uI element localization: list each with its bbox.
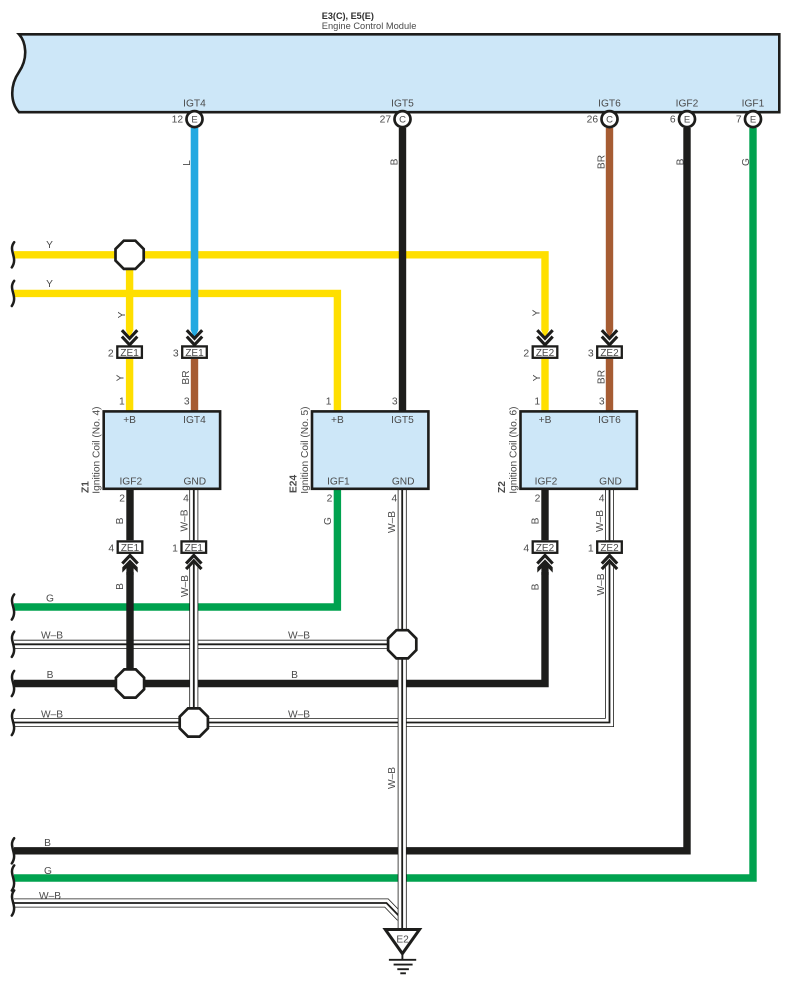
- svg-text:ZE2: ZE2: [536, 348, 555, 359]
- svg-text:IGF1: IGF1: [327, 477, 350, 488]
- svg-text:BR: BR: [597, 155, 608, 169]
- connector ZE2 pin 4 (chevron joint): [523, 541, 557, 554]
- svg-text:E: E: [684, 114, 690, 125]
- svg-text:IGT6: IGT6: [598, 98, 621, 109]
- svg-text:W–B: W–B: [595, 510, 606, 532]
- svg-text:+B: +B: [123, 415, 136, 426]
- svg-text:IGF2: IGF2: [119, 477, 142, 488]
- svg-text:IGF2: IGF2: [676, 98, 699, 109]
- svg-text:B: B: [291, 670, 298, 681]
- svg-text:12: 12: [172, 115, 184, 126]
- svg-text:W–B: W–B: [596, 573, 607, 595]
- svg-text:B: B: [115, 517, 126, 524]
- wire W-B Z1 GND pin 4 to ZE1 pin 1: [189, 488, 198, 540]
- svg-text:3: 3: [173, 348, 179, 359]
- junction W-B / E24 GND: [388, 630, 416, 658]
- wire Y yellow branch from junction to ZE1 pin 2: [126, 255, 133, 330]
- connector ZE2 pin 1 (chevron joint): [588, 541, 622, 554]
- svg-text:1: 1: [588, 543, 594, 554]
- svg-text:W–B: W–B: [180, 509, 191, 531]
- svg-text:W–B: W–B: [387, 767, 398, 789]
- svg-text:IGT4: IGT4: [183, 98, 206, 109]
- svg-text:W–B: W–B: [180, 575, 191, 597]
- ground E2: [385, 930, 419, 954]
- svg-text:1: 1: [534, 397, 540, 408]
- svg-text:ZE2: ZE2: [600, 348, 619, 359]
- svg-text:Ignition Coil (No. 6): Ignition Coil (No. 6): [508, 406, 519, 493]
- wire W-B bottom horizontal merging to E2 ground run: [14, 903, 401, 918]
- svg-text:IGF2: IGF2: [535, 477, 558, 488]
- svg-text:IGT6: IGT6: [598, 415, 621, 426]
- svg-text:E2: E2: [396, 934, 409, 945]
- wire W-B horizontal 2 (GND bus to Z2 via ZE2): [14, 564, 610, 723]
- svg-text:ZE1: ZE1: [121, 543, 140, 554]
- svg-text:2: 2: [108, 348, 114, 359]
- svg-text:W–B: W–B: [41, 709, 63, 720]
- wire B black from ECM IGT5 pin 27 to E24 IGT5: [399, 128, 406, 411]
- wire B Z2 IGF2 pin 2 to ZE2 pin 4: [541, 488, 548, 540]
- wire W-B Z2 GND pin 4 to ZE2 pin 1: [605, 488, 614, 540]
- wire-continuation break symbol G bottom: [12, 865, 14, 890]
- svg-text:Y: Y: [46, 279, 53, 290]
- svg-text:W–B: W–B: [39, 891, 61, 902]
- wire-continuation break symbol B mid: [12, 671, 14, 696]
- wire-continuation break symbol W-B1: [12, 632, 14, 657]
- ignition coil Z1 (No. 4): [80, 397, 220, 505]
- svg-text:Y: Y: [117, 311, 128, 318]
- svg-text:1: 1: [326, 397, 332, 408]
- svg-text:Y: Y: [532, 309, 543, 316]
- svg-text:ZE2: ZE2: [536, 543, 555, 554]
- svg-text:E24: E24: [289, 475, 300, 493]
- svg-text:ZE1: ZE1: [185, 348, 204, 359]
- svg-text:Y: Y: [116, 374, 127, 381]
- svg-text:GND: GND: [599, 477, 622, 488]
- wire BR brown from ECM IGT6 pin 26 to ZE2: [606, 128, 613, 330]
- ECM Engine Control Module box E3/E5: [12, 34, 779, 112]
- svg-text:Z2: Z2: [497, 481, 508, 493]
- connector ZE1 pin 1 (chevron joint): [172, 541, 206, 554]
- svg-text:ZE1: ZE1: [120, 348, 139, 359]
- svg-text:7: 7: [736, 115, 742, 126]
- svg-text:BR: BR: [181, 370, 192, 384]
- svg-text:1: 1: [172, 543, 178, 554]
- svg-text:E: E: [191, 114, 197, 125]
- svg-text:GND: GND: [183, 477, 206, 488]
- svg-text:IGT5: IGT5: [391, 415, 414, 426]
- svg-text:Y: Y: [46, 240, 53, 251]
- svg-text:B: B: [390, 158, 401, 165]
- svg-text:IGT5: IGT5: [391, 98, 414, 109]
- wire BR brown ZE2 to Z2 IGT6 pin 3: [606, 359, 613, 411]
- svg-text:Y: Y: [532, 374, 543, 381]
- wire B Z1 IGF2 pin 2 to ZE1 pin 4: [126, 488, 133, 540]
- wire BR brown ZE1 to Z1 IGT4 pin 3: [191, 359, 198, 411]
- svg-text:+B: +B: [331, 415, 344, 426]
- svg-text:B: B: [531, 517, 542, 524]
- svg-text:E3(C), E5(E): E3(C), E5(E): [322, 11, 374, 21]
- svg-text:2: 2: [327, 494, 333, 505]
- junction B bus / Z1 IGF2: [116, 669, 144, 697]
- svg-text:3: 3: [599, 397, 605, 408]
- svg-text:Engine Control Module: Engine Control Module: [322, 21, 417, 31]
- svg-text:3: 3: [392, 397, 398, 408]
- svg-text:2: 2: [535, 494, 541, 505]
- wire-continuation break symbol G: [12, 594, 14, 619]
- svg-text:G: G: [46, 594, 54, 605]
- wire G bottom horizontal to ECM IGF1 pin 7: [14, 128, 753, 878]
- svg-text:4: 4: [183, 494, 189, 505]
- connector ZE2 pin 3 (chevron joint): [602, 330, 617, 338]
- svg-text:6: 6: [670, 115, 676, 126]
- svg-text:IGF1: IGF1: [742, 98, 765, 109]
- svg-text:3: 3: [588, 348, 594, 359]
- wire-continuation break symbol B bottom: [12, 838, 14, 863]
- svg-text:BR: BR: [597, 370, 608, 384]
- svg-text:B: B: [531, 583, 542, 590]
- svg-text:+B: +B: [539, 415, 552, 426]
- svg-text:G: G: [323, 517, 334, 525]
- wire B mid horizontal (IGF2 bus to Z2): [14, 572, 545, 684]
- svg-text:IGT4: IGT4: [183, 415, 206, 426]
- svg-text:W–B: W–B: [387, 511, 398, 533]
- svg-text:B: B: [115, 583, 126, 590]
- svg-text:4: 4: [108, 543, 114, 554]
- connector ZE1 pin 4 (chevron joint): [108, 541, 142, 554]
- svg-text:4: 4: [391, 494, 397, 505]
- svg-text:Z1: Z1: [80, 481, 91, 493]
- wire-continuation break symbol Y1: [12, 242, 14, 267]
- wire B bottom horizontal to ECM IGF2 pin 6: [14, 128, 687, 851]
- wire Y yellow horizontal 1 (to ignition coil Z2 +B via ZE2): [14, 255, 545, 330]
- wire Y yellow horizontal 2 (to ignition coil E24 +B): [14, 293, 337, 411]
- svg-text:G: G: [741, 158, 752, 166]
- svg-text:B: B: [676, 158, 687, 165]
- connector ZE1 pin 3 (chevron joint): [187, 330, 202, 338]
- svg-text:3: 3: [184, 397, 190, 408]
- wire G green (to ignition coil E24 IGF1): [14, 488, 337, 607]
- connector ZE1 pin 2 (chevron joint): [122, 330, 137, 338]
- svg-text:C: C: [399, 114, 406, 125]
- svg-text:4: 4: [523, 543, 529, 554]
- svg-text:E: E: [750, 114, 756, 125]
- wire W-B horizontal 1 (to junction with E24 GND): [14, 640, 402, 649]
- wire-continuation break symbol Y2: [12, 281, 14, 306]
- svg-text:ZE2: ZE2: [600, 543, 619, 554]
- svg-text:ZE1: ZE1: [185, 543, 204, 554]
- junction on yellow wire: [116, 241, 144, 269]
- svg-text:W–B: W–B: [288, 630, 310, 641]
- wire L blue from ECM IGT4 pin 12 to ZE1: [191, 128, 199, 330]
- connector ZE2 pin 2 (chevron joint): [537, 330, 552, 338]
- junction W-B bus / Z1 GND: [180, 708, 208, 736]
- svg-text:26: 26: [587, 115, 599, 126]
- wire W-B ZE1 pin 1 down to junction: [189, 564, 198, 723]
- svg-text:27: 27: [380, 115, 392, 126]
- svg-text:C: C: [606, 114, 613, 125]
- svg-text:4: 4: [599, 494, 605, 505]
- wire Y yellow ZE1 to Z1 +B pin 1: [126, 359, 133, 411]
- svg-text:Ignition Coil (No. 4): Ignition Coil (No. 4): [92, 406, 103, 493]
- svg-text:1: 1: [119, 397, 125, 408]
- svg-text:W–B: W–B: [288, 709, 310, 720]
- svg-text:G: G: [44, 866, 52, 877]
- wire W-B E24 GND pin 4 down to ground E2: [398, 488, 407, 929]
- ignition coil E24 (No. 5): [289, 397, 429, 505]
- svg-text:GND: GND: [392, 477, 415, 488]
- svg-text:W–B: W–B: [41, 630, 63, 641]
- svg-text:2: 2: [119, 494, 125, 505]
- svg-text:B: B: [47, 670, 54, 681]
- ignition coil Z2 (No. 6): [497, 397, 637, 505]
- svg-text:Ignition Coil (No. 5): Ignition Coil (No. 5): [300, 406, 311, 493]
- svg-text:B: B: [44, 838, 51, 849]
- wire Y yellow ZE2 to Z2 +B pin 1: [541, 359, 548, 411]
- svg-text:2: 2: [523, 348, 529, 359]
- wire-continuation break symbol W-B2: [12, 710, 14, 735]
- wire B ZE1 pin 4 down to junction: [122, 559, 137, 575]
- svg-text:L: L: [182, 160, 193, 166]
- wire-continuation break symbol W-B bottom: [12, 890, 14, 915]
